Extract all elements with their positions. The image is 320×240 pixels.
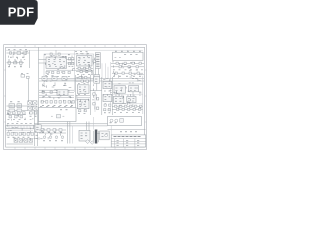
wire stubs bbox=[39, 129, 60, 140]
wire bbox=[20, 64, 22, 67]
snubber labels bbox=[43, 77, 65, 79]
sheet inner border bbox=[6, 47, 145, 147]
label row bbox=[113, 69, 143, 71]
IC U1 bbox=[46, 57, 67, 68]
wire stubs bbox=[41, 75, 71, 103]
vertical rail A bbox=[38, 48, 40, 127]
title block text bbox=[117, 139, 140, 141]
wire stubs bbox=[80, 52, 96, 76]
wire bbox=[93, 117, 95, 130]
comp row 2 bbox=[9, 116, 12, 118]
IC U1 marks bbox=[49, 56, 66, 58]
wire bbox=[7, 110, 28, 112]
bottom border ticks bbox=[15, 147, 135, 149]
regulator rows bbox=[130, 89, 136, 91]
capacitor C4 bbox=[58, 53, 60, 55]
IC U5 bbox=[77, 99, 89, 108]
wire bbox=[132, 92, 134, 96]
capacitor C13 bbox=[96, 98, 98, 100]
transistor Q1 column bbox=[95, 53, 100, 69]
transformer T1 windings bbox=[93, 131, 98, 142]
bridge rectifier BR3 bbox=[28, 106, 32, 110]
shield box bbox=[39, 108, 77, 122]
wire bbox=[92, 59, 95, 61]
rung bbox=[76, 77, 91, 79]
IC U11 bbox=[113, 96, 123, 103]
bottom bus 1 bbox=[34, 123, 108, 125]
thermistor TH1 bbox=[21, 75, 25, 78]
bridge rectifier BR2 bbox=[33, 101, 37, 105]
diode D1 bbox=[14, 62, 17, 64]
title block text bbox=[117, 142, 140, 144]
label row bbox=[21, 72, 29, 74]
resistor R3 bbox=[78, 67, 80, 69]
resistor R4 bbox=[80, 71, 82, 73]
bridge row 2 bbox=[19, 139, 23, 143]
capacitor C1 bbox=[14, 51, 15, 54]
Q1 rows bbox=[96, 56, 99, 58]
resistor R11 bbox=[79, 110, 81, 112]
wire bbox=[76, 71, 93, 73]
resistor R8 bbox=[42, 91, 44, 93]
vertical wire bbox=[29, 50, 31, 68]
relay top labels bbox=[115, 50, 141, 52]
output rows bbox=[102, 136, 104, 138]
diode D3 bbox=[86, 140, 90, 144]
comp row bbox=[8, 112, 11, 114]
label row bbox=[42, 96, 71, 98]
wire bbox=[86, 122, 88, 131]
driver box bbox=[79, 130, 90, 141]
IC U5 rows bbox=[80, 106, 87, 108]
transformer T1 core bbox=[95, 130, 98, 144]
wire stubs bbox=[112, 62, 144, 78]
title header text bbox=[114, 136, 141, 138]
capacitor C2 bbox=[8, 61, 11, 64]
label row bbox=[8, 118, 26, 120]
capacitor bank bbox=[115, 105, 117, 107]
Q1 rows bbox=[96, 53, 99, 55]
wire bbox=[97, 132, 99, 134]
label row bbox=[8, 49, 27, 51]
wire bbox=[67, 59, 75, 61]
relay contacts bbox=[115, 57, 121, 59]
vertical rail B bbox=[74, 50, 76, 92]
label row bbox=[78, 112, 85, 114]
wire bbox=[54, 82, 56, 86]
label row bbox=[75, 51, 88, 53]
wire bbox=[39, 94, 74, 96]
wire bbox=[112, 72, 143, 74]
vertical wire bbox=[67, 122, 69, 144]
wire bbox=[7, 52, 30, 54]
wire bbox=[64, 82, 66, 86]
label row bbox=[10, 56, 24, 58]
label row bbox=[113, 75, 141, 77]
terminal bbox=[105, 134, 108, 137]
label row bbox=[42, 104, 73, 106]
IC U8 rows bbox=[105, 96, 111, 98]
wire bbox=[39, 62, 47, 64]
dc bus upper bbox=[39, 78, 144, 80]
capacitor C3 bbox=[50, 53, 52, 55]
wire bbox=[39, 92, 74, 94]
output box bbox=[100, 131, 110, 140]
driver rows bbox=[81, 135, 88, 137]
wire bbox=[111, 66, 144, 68]
opto IC U6 bbox=[94, 77, 100, 84]
IC U4 bbox=[77, 85, 89, 94]
capacitor C7 bbox=[9, 104, 15, 108]
IC U1 pins bbox=[48, 58, 61, 60]
wire stubs bbox=[45, 55, 75, 75]
label row bbox=[120, 131, 137, 133]
wire bbox=[97, 68, 99, 80]
wire bbox=[7, 62, 25, 64]
wire bbox=[127, 50, 129, 52]
bottom bus 2 bbox=[34, 125, 108, 127]
fuse F1 bbox=[10, 52, 12, 54]
relay K1 box bbox=[113, 52, 144, 60]
dc bus lower bbox=[39, 80, 144, 82]
ladder rail left bbox=[75, 75, 77, 115]
wire bbox=[12, 55, 14, 58]
IC U7 bbox=[103, 81, 112, 88]
label row bbox=[30, 115, 37, 117]
capacitor C10 bbox=[68, 58, 70, 60]
IC U5 rows bbox=[79, 103, 85, 105]
wire bbox=[46, 69, 92, 71]
IC U12 bbox=[127, 96, 136, 102]
IC U2 rows bbox=[78, 57, 90, 59]
resistor R5 bbox=[115, 72, 117, 74]
IC U4 rows bbox=[79, 88, 85, 90]
label row bbox=[78, 83, 85, 85]
wire bbox=[101, 63, 103, 78]
snubber block rows bbox=[59, 93, 65, 95]
comp row bbox=[41, 129, 44, 132]
diode D2 bbox=[116, 62, 118, 64]
capacitor C7 label bbox=[10, 105, 20, 107]
primary section outline bbox=[44, 54, 94, 80]
Q1 rows bbox=[96, 63, 99, 65]
wire bbox=[111, 62, 144, 64]
wire bbox=[112, 105, 143, 107]
wire bbox=[112, 108, 143, 110]
wire bbox=[9, 64, 11, 67]
IC U2 bbox=[77, 56, 93, 66]
pilot lamps bbox=[43, 136, 46, 139]
resistor R7 bbox=[17, 109, 22, 112]
shield inner comp bbox=[57, 115, 61, 118]
wire bbox=[107, 67, 109, 79]
resistor R2 bbox=[20, 61, 23, 64]
hairline bbox=[112, 94, 143, 96]
IC U7 rows bbox=[105, 83, 111, 85]
connector J1 pins bbox=[9, 125, 30, 129]
shield label bbox=[60, 109, 68, 111]
IC U5 rows bbox=[79, 101, 86, 103]
aux rows bbox=[36, 126, 38, 128]
wire bbox=[112, 83, 143, 85]
net rail top bbox=[6, 49, 143, 51]
IC U7 rows bbox=[105, 85, 111, 87]
side border ticks bbox=[4, 70, 147, 122]
vertical wire bbox=[69, 122, 71, 144]
regulator rows bbox=[116, 90, 123, 92]
bridge rectifier BR4 bbox=[33, 106, 37, 110]
label row bbox=[76, 53, 89, 55]
opto label bbox=[95, 78, 97, 80]
IC U8 rows bbox=[105, 98, 107, 100]
bridge row 3 bbox=[24, 139, 28, 143]
label row bbox=[43, 140, 63, 142]
wire bbox=[67, 62, 75, 64]
comp row 3 bbox=[7, 132, 9, 135]
vertical wire bbox=[94, 91, 96, 113]
vertical wire bbox=[72, 126, 74, 144]
Q1 rows bbox=[96, 65, 99, 67]
video marks bbox=[110, 122, 117, 124]
label row bbox=[43, 84, 65, 86]
wire bbox=[39, 129, 66, 131]
IC U4 rows bbox=[79, 86, 86, 88]
IC U12 rows bbox=[128, 100, 134, 102]
comp cluster bbox=[30, 112, 33, 114]
IC U11 rows bbox=[115, 98, 121, 100]
svg-text:PDF: PDF bbox=[8, 5, 35, 20]
Q1 rows bbox=[96, 58, 99, 60]
resistor row bbox=[117, 108, 119, 110]
title block bbox=[111, 135, 146, 147]
wire stubs bbox=[92, 84, 97, 109]
label row bbox=[115, 94, 141, 96]
capacitor C11 bbox=[72, 58, 74, 60]
driver rows bbox=[81, 132, 88, 134]
resistor R10 bbox=[81, 80, 83, 82]
opto label bbox=[95, 80, 97, 82]
IC U1 rows bbox=[49, 66, 63, 68]
label row bbox=[114, 111, 140, 113]
cluster rail bbox=[112, 77, 114, 115]
label row bbox=[46, 75, 70, 77]
wire bbox=[76, 97, 91, 99]
resistor R12 bbox=[104, 104, 106, 106]
resistor R6 bbox=[9, 109, 15, 112]
bridge row bbox=[14, 139, 18, 143]
IC U12 rows bbox=[128, 98, 134, 100]
bridge rectifier BR1 bbox=[28, 101, 32, 105]
inductor L1 bbox=[17, 52, 21, 55]
label row bbox=[42, 131, 62, 133]
wire bbox=[43, 82, 45, 86]
capacitor C5 bbox=[119, 66, 121, 68]
aux box bbox=[35, 125, 41, 133]
right rail bbox=[141, 76, 143, 114]
wire bbox=[88, 122, 90, 131]
connector labels bbox=[7, 123, 32, 125]
wire bbox=[23, 55, 25, 58]
hairline bbox=[112, 103, 143, 105]
video comp bbox=[120, 119, 124, 123]
diode D4 bbox=[90, 141, 94, 145]
wire bbox=[39, 59, 47, 61]
wire stubs bbox=[7, 112, 36, 141]
aux rows bbox=[36, 129, 38, 131]
resistor R17 bbox=[96, 107, 98, 109]
regulator U9 bbox=[114, 86, 125, 94]
wire stubs bbox=[103, 79, 112, 109]
aux marks bbox=[36, 134, 38, 136]
wire bbox=[76, 67, 93, 69]
label row bbox=[44, 54, 70, 56]
vertical wire bbox=[110, 126, 112, 135]
comp row mid bbox=[46, 71, 48, 73]
label row bbox=[69, 66, 74, 68]
wire stubs bbox=[8, 51, 28, 62]
resistor R16 bbox=[93, 103, 95, 105]
rung bbox=[76, 80, 91, 82]
IC U8 bbox=[103, 94, 112, 101]
IC U1 rows bbox=[48, 61, 65, 63]
output rows bbox=[102, 133, 108, 135]
regulator U10 bbox=[129, 86, 139, 92]
resistor R9 bbox=[79, 76, 81, 78]
resistor R13 bbox=[104, 109, 106, 111]
wire bbox=[7, 143, 34, 145]
capacitor C12 bbox=[93, 93, 95, 95]
wire bbox=[39, 89, 74, 91]
label row bbox=[104, 90, 110, 92]
wire bbox=[76, 94, 91, 96]
label row bbox=[8, 66, 22, 68]
wire bbox=[96, 83, 98, 90]
title block text bbox=[117, 145, 140, 147]
IC U2 rows bbox=[78, 62, 90, 64]
right rail 2 bbox=[143, 76, 145, 114]
IC U2 rows bbox=[78, 59, 86, 61]
title block rows bbox=[111, 139, 146, 147]
regulator rows bbox=[116, 87, 123, 89]
regulator rows bbox=[130, 87, 136, 89]
label row bbox=[8, 136, 30, 138]
wire bbox=[39, 97, 74, 99]
wire bbox=[7, 105, 28, 107]
wire bbox=[6, 130, 33, 132]
snubber block rows bbox=[59, 91, 65, 93]
aux marks bbox=[36, 137, 38, 139]
wire bbox=[39, 132, 66, 134]
wire stubs bbox=[113, 77, 141, 110]
snubber boxes bbox=[42, 76, 47, 80]
wire bbox=[90, 90, 102, 92]
sheet outer border bbox=[4, 45, 147, 150]
wire bbox=[7, 114, 27, 116]
label row bbox=[8, 59, 22, 61]
wire bbox=[95, 68, 97, 80]
diode row bbox=[41, 101, 43, 104]
wire bbox=[55, 50, 57, 57]
ladder rail right bbox=[89, 75, 91, 115]
capacitor C8 bbox=[17, 104, 22, 108]
transistor Q1 bbox=[94, 75, 100, 79]
resistor R1 bbox=[23, 52, 26, 54]
video sockets bbox=[110, 119, 113, 122]
snubber block bbox=[57, 90, 68, 96]
wire bbox=[105, 63, 107, 78]
connector J1 bbox=[6, 125, 34, 129]
resistor R15 bbox=[72, 62, 74, 64]
driver rows bbox=[81, 138, 83, 140]
label row bbox=[78, 94, 86, 96]
IC U4 rows bbox=[80, 91, 87, 93]
label row bbox=[77, 74, 90, 76]
vertical rail C bbox=[110, 62, 112, 112]
label row bbox=[10, 101, 20, 103]
video block bbox=[108, 117, 142, 126]
label row bbox=[104, 112, 110, 114]
cluster rail bbox=[101, 77, 103, 115]
relay label bbox=[124, 54, 138, 56]
vertical wire bbox=[37, 110, 39, 146]
top border ticks bbox=[15, 45, 135, 48]
resistor R14 bbox=[68, 62, 70, 64]
IC U2 rows bbox=[79, 64, 86, 66]
wire bbox=[27, 79, 29, 102]
Q1 rows bbox=[96, 61, 99, 63]
shield top labels bbox=[40, 105, 72, 107]
IC U11 rows bbox=[115, 100, 121, 102]
IC U1 rows bbox=[48, 63, 62, 65]
PDF badge bbox=[0, 0, 38, 25]
wire stubs bbox=[77, 77, 89, 110]
vertical wire bbox=[34, 110, 36, 146]
shield inner marks bbox=[51, 115, 64, 117]
wire bbox=[118, 93, 120, 96]
bridge row 4 bbox=[29, 139, 33, 143]
capacitor C6 bbox=[27, 76, 30, 78]
wire bbox=[108, 129, 146, 131]
